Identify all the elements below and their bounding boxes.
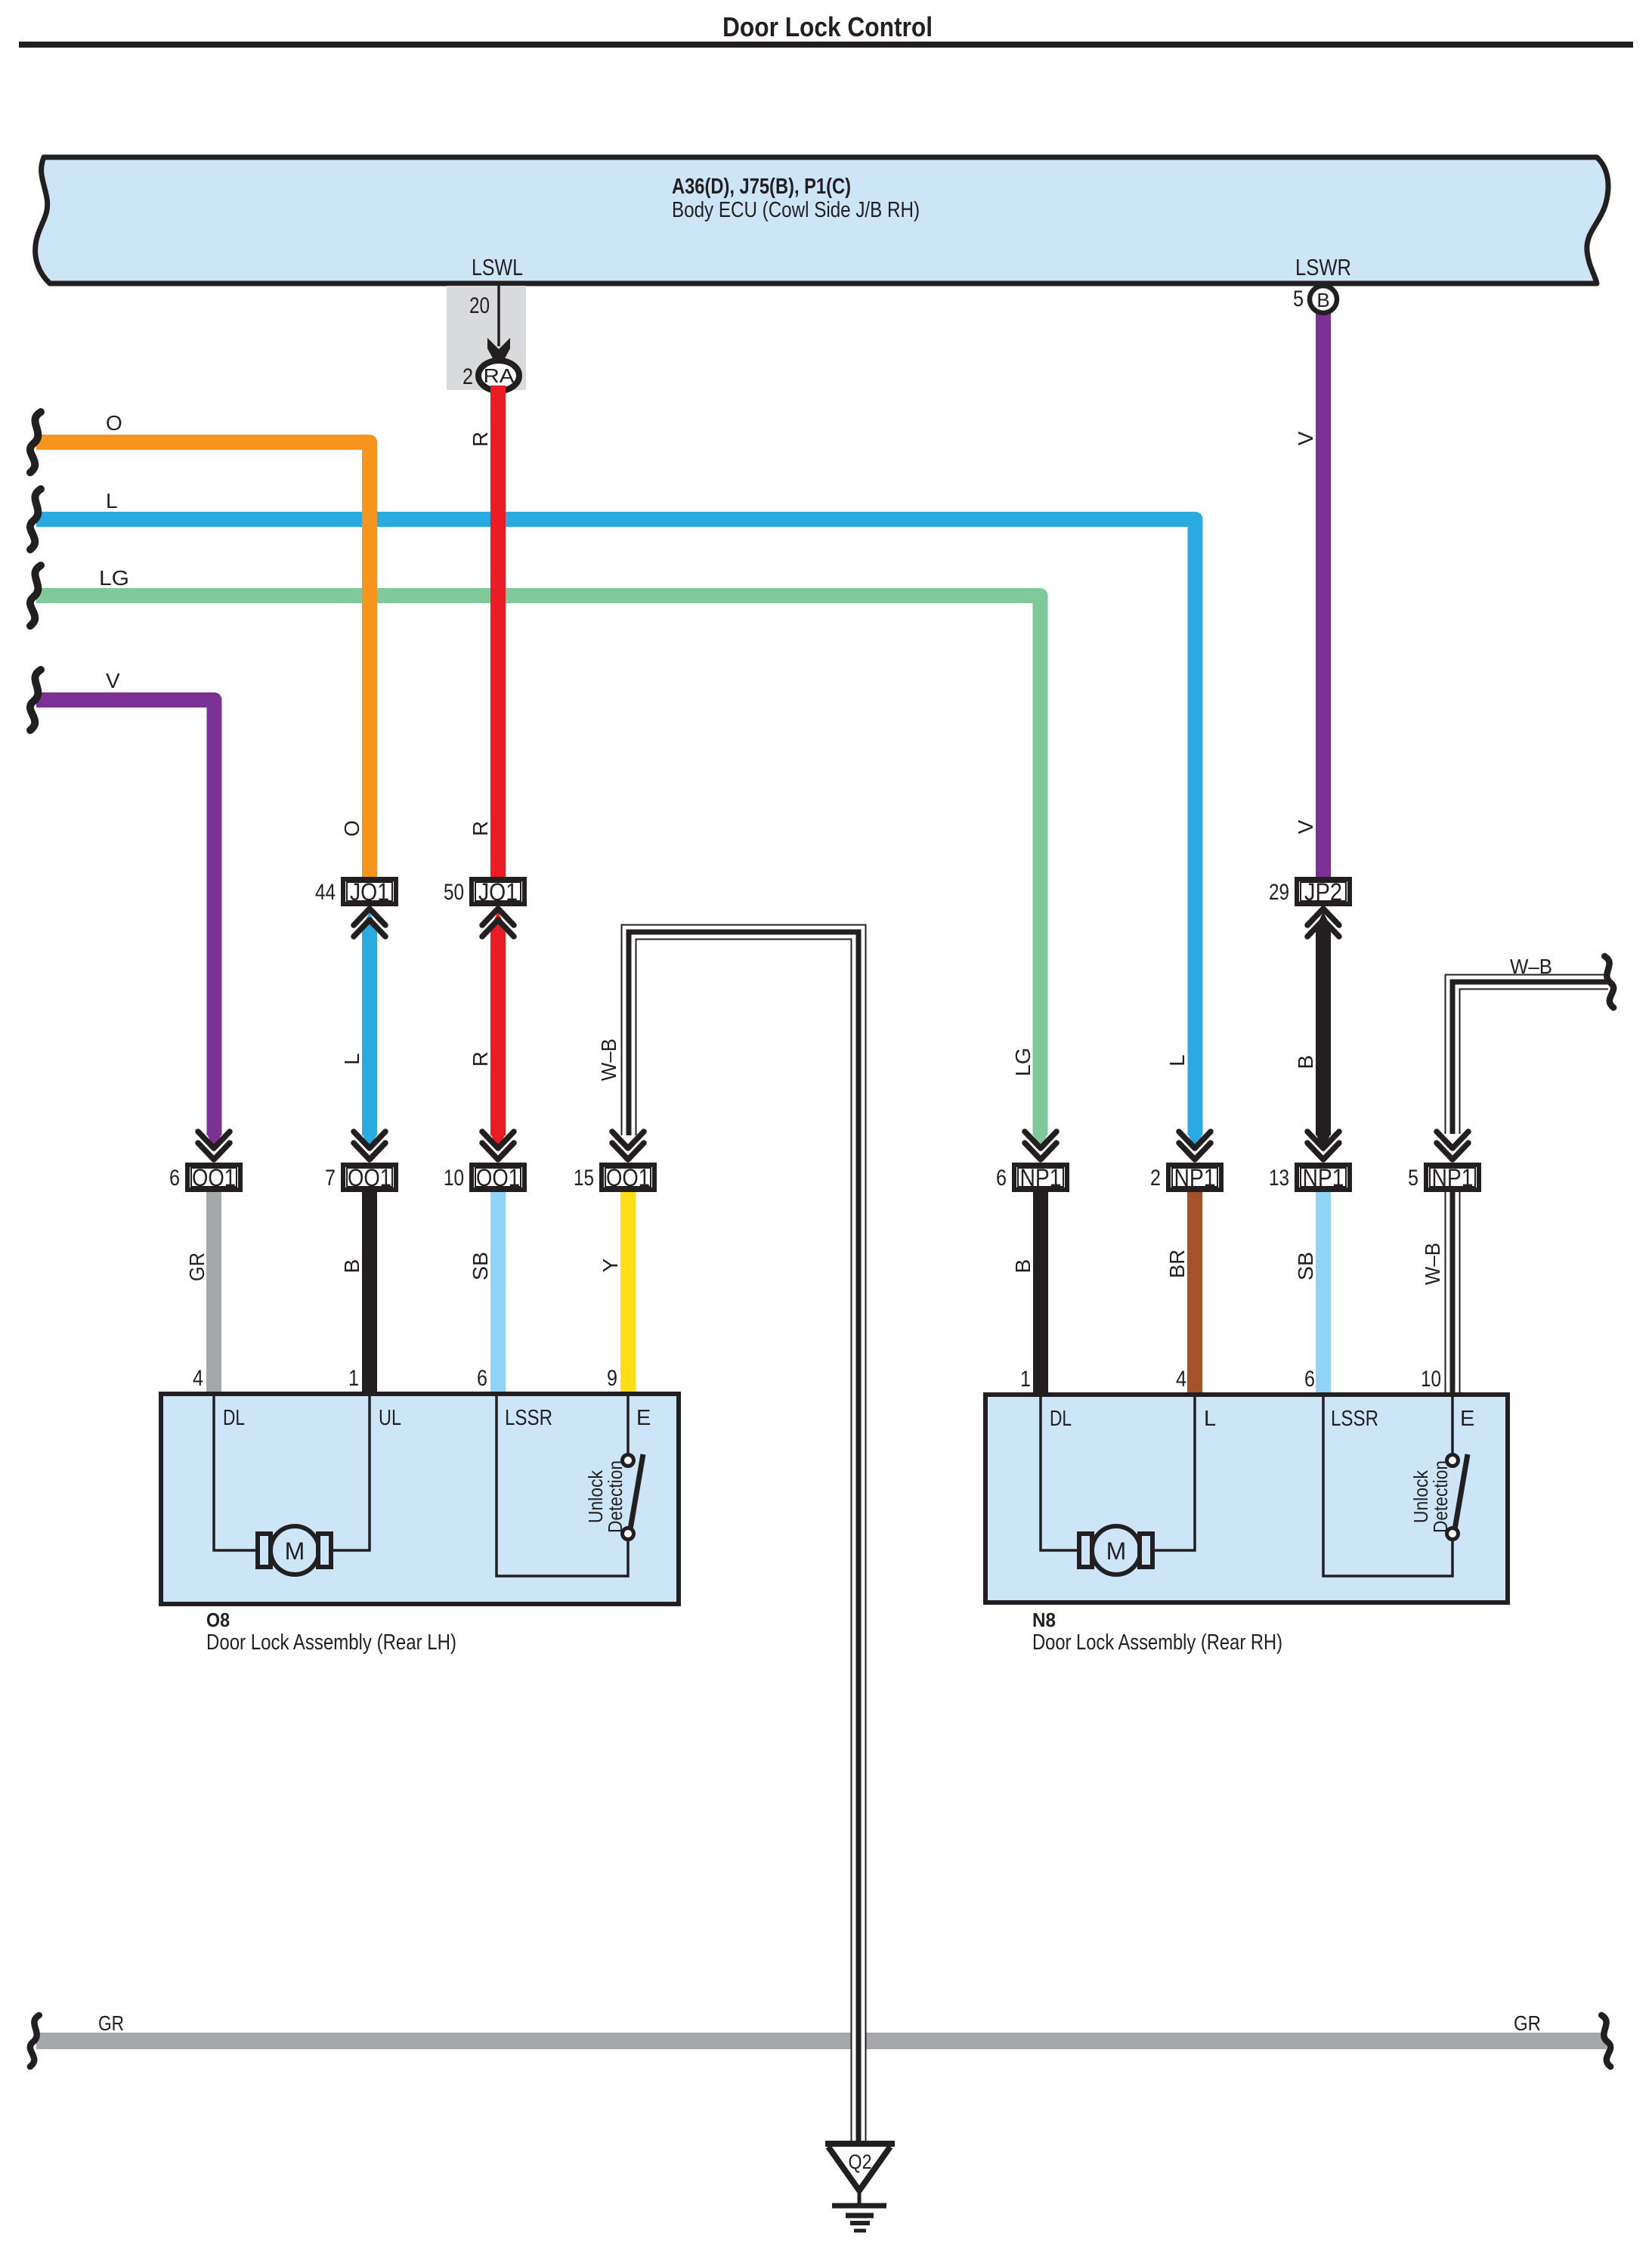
svg-text:6: 6 <box>1304 1367 1315 1392</box>
svg-text:LSWR: LSWR <box>1295 254 1351 280</box>
svg-text:LG: LG <box>1011 1048 1035 1076</box>
bottom ground bus GR <box>36 2011 1607 2049</box>
wire R red from RA <box>490 386 506 877</box>
connector 44 JQ1 <box>315 878 396 906</box>
svg-text:4: 4 <box>1176 1367 1186 1392</box>
svg-text:BR: BR <box>1165 1249 1189 1278</box>
svg-text:L: L <box>1204 1407 1216 1431</box>
wire LSWL pin lead <box>497 286 500 346</box>
svg-text:A36(D), J75(B), P1(C): A36(D), J75(B), P1(C) <box>672 175 851 199</box>
splice B on LSWR <box>1310 286 1337 313</box>
switch unlock detection <box>623 1455 634 1466</box>
switch unlock detection <box>1447 1455 1459 1466</box>
svg-text:O8: O8 <box>206 1609 230 1631</box>
break squiggle right GR <box>1601 2015 1610 2067</box>
arrow into 44 JQ1 <box>354 909 385 937</box>
break squiggle right W-B <box>1604 956 1613 1008</box>
svg-text:O: O <box>340 820 364 837</box>
svg-text:10: 10 <box>1421 1367 1441 1392</box>
arrow into 7 OQ1 <box>354 1132 385 1160</box>
svg-text:NP1: NP1 <box>1432 1164 1474 1191</box>
svg-text:50: 50 <box>444 880 464 905</box>
svg-text:LSWL: LSWL <box>472 254 523 280</box>
connector 29 JP2 <box>1269 878 1350 906</box>
wire SB to pin 6 <box>490 1192 506 1396</box>
connector 13 NP1 <box>1269 1164 1350 1191</box>
connector 6 OQ1 <box>169 1164 240 1191</box>
wire UL internal <box>331 1396 370 1550</box>
connector 2 NP1 <box>1150 1164 1221 1191</box>
wire V purple left <box>36 700 215 1135</box>
Body ECU banner A36(D) J75(B) P1(C) <box>36 157 1608 283</box>
arrow into 6 OQ1 <box>198 1132 230 1160</box>
arrow into 6 NP1 <box>1025 1132 1056 1160</box>
svg-text:V: V <box>106 669 120 692</box>
wire DL internal <box>214 1396 258 1550</box>
connector 50 JQ1 <box>444 878 524 906</box>
svg-text:OQ1: OQ1 <box>476 1164 520 1191</box>
svg-text:Detection: Detection <box>1429 1460 1452 1533</box>
svg-text:Y: Y <box>599 1258 622 1272</box>
svg-text:W–B: W–B <box>597 1039 620 1081</box>
svg-text:2: 2 <box>462 364 473 389</box>
svg-text:4: 4 <box>193 1366 203 1391</box>
svg-text:V: V <box>1294 431 1317 445</box>
arrow into 50 JQ1 <box>482 909 514 937</box>
connector 5 NP1 <box>1408 1164 1479 1191</box>
wire LSSR internal <box>1323 1397 1452 1576</box>
svg-text:JP2: JP2 <box>1304 878 1342 906</box>
block N8 Door Lock Assembly Rear RH <box>985 1367 1508 1602</box>
svg-text:LG: LG <box>99 566 129 590</box>
wire W-B ground run from 15 OQ1 to Q2 <box>629 932 858 2141</box>
ground Q2 <box>825 2144 895 2231</box>
wire R red mid segment <box>490 925 506 1135</box>
wire O orange <box>36 442 370 877</box>
svg-text:E: E <box>1460 1407 1474 1431</box>
svg-text:L: L <box>340 1053 364 1065</box>
wire colour labels <box>99 411 1552 1285</box>
svg-text:GR: GR <box>98 2011 124 2035</box>
svg-text:OQ1: OQ1 <box>192 1164 236 1191</box>
wire SB to pin 6 right <box>1316 1192 1331 1397</box>
wire Y yellow to pin 9 <box>620 1192 636 1396</box>
wire L blue mid segment <box>362 925 377 1135</box>
wire B black JP2 to 13 NP1 <box>1316 925 1331 1135</box>
svg-text:Door Lock Assembly (Rear LH): Door Lock Assembly (Rear LH) <box>206 1630 456 1655</box>
svg-text:M: M <box>285 1537 305 1565</box>
svg-text:N8: N8 <box>1032 1609 1056 1631</box>
arrow into 13 NP1 <box>1307 1132 1339 1160</box>
svg-text:B: B <box>1316 289 1329 311</box>
arrow into 2 NP1 <box>1179 1132 1211 1160</box>
wire B black to pin 1 <box>362 1192 377 1396</box>
connector 10 OQ1 <box>444 1164 524 1191</box>
svg-text:2: 2 <box>1150 1166 1161 1191</box>
svg-text:20: 20 <box>469 293 490 318</box>
wire BR brown to pin 4 right <box>1187 1192 1202 1397</box>
motor M <box>1092 1526 1140 1575</box>
svg-text:B: B <box>340 1259 364 1274</box>
svg-text:GR: GR <box>185 1253 209 1281</box>
wire L horizontal (blue) <box>36 519 1196 1135</box>
svg-text:L: L <box>1165 1054 1189 1067</box>
svg-text:R: R <box>469 432 492 447</box>
arrow into 29 JP2 <box>1307 909 1339 937</box>
wire V purple right from B circle <box>1316 302 1331 877</box>
wire E internal <box>626 1396 630 1455</box>
wire LG horizontal (green) <box>36 596 1041 1135</box>
svg-text:Q2: Q2 <box>849 2151 872 2173</box>
svg-text:6: 6 <box>477 1366 487 1391</box>
svg-text:B: B <box>1294 1055 1317 1070</box>
svg-text:5: 5 <box>1408 1166 1418 1191</box>
grey connector shade box under LSWL <box>447 286 526 391</box>
svg-text:NP1: NP1 <box>1174 1164 1216 1191</box>
break symbol wire LG <box>30 565 41 626</box>
arrow into 10 OQ1 <box>482 1132 514 1160</box>
wire B black to pin 1 right <box>1033 1192 1048 1397</box>
svg-text:L: L <box>106 489 118 512</box>
motor M <box>271 1526 319 1575</box>
wire L internal <box>1152 1397 1195 1550</box>
svg-text:B: B <box>1011 1259 1035 1274</box>
svg-text:6: 6 <box>169 1166 180 1191</box>
wire GR grey to pin 4 <box>206 1192 221 1396</box>
svg-text:R: R <box>469 821 492 836</box>
svg-text:OQ1: OQ1 <box>606 1164 650 1191</box>
svg-text:O: O <box>106 411 122 435</box>
svg-text:9: 9 <box>607 1366 617 1391</box>
break symbol wire L <box>30 489 41 550</box>
svg-text:DL: DL <box>1050 1407 1072 1431</box>
svg-text:JQ1: JQ1 <box>350 878 389 906</box>
svg-text:JQ1: JQ1 <box>478 878 518 906</box>
break symbol wire V <box>30 670 41 730</box>
arrow into 5 NP1 <box>1437 1132 1468 1160</box>
svg-text:44: 44 <box>315 880 336 905</box>
svg-text:LSSR: LSSR <box>505 1406 552 1430</box>
svg-text:1: 1 <box>1020 1367 1031 1392</box>
svg-text:OQ1: OQ1 <box>348 1164 391 1191</box>
connector 15 OQ1 <box>574 1164 654 1191</box>
connector 6 NP1 <box>996 1164 1067 1191</box>
svg-text:E: E <box>636 1406 651 1430</box>
wire W-B below 5 NP1 to pin 10 <box>1445 1192 1461 1397</box>
svg-text:DL: DL <box>223 1406 245 1430</box>
svg-text:GR: GR <box>1514 2011 1541 2035</box>
svg-text:R: R <box>469 1051 492 1067</box>
svg-text:7: 7 <box>325 1166 336 1191</box>
svg-text:1: 1 <box>348 1366 359 1391</box>
break symbol GR bus left <box>30 2015 39 2067</box>
svg-text:6: 6 <box>996 1166 1007 1191</box>
svg-text:UL: UL <box>379 1406 401 1430</box>
svg-text:Detection: Detection <box>604 1460 626 1533</box>
svg-text:NP1: NP1 <box>1303 1164 1344 1191</box>
svg-text:Body ECU (Cowl Side J/B RH): Body ECU (Cowl Side J/B RH) <box>672 198 920 222</box>
wire LSSR internal <box>497 1396 628 1576</box>
break symbol wire O <box>30 412 41 472</box>
wire W-B right from edge to 5 NP1 <box>1452 982 1608 1134</box>
svg-text:RA: RA <box>484 364 515 387</box>
wire E internal <box>1451 1397 1454 1455</box>
svg-text:10: 10 <box>444 1166 464 1191</box>
svg-text:29: 29 <box>1269 880 1289 905</box>
block O8 Door Lock Assembly Rear LH <box>161 1366 679 1604</box>
title <box>19 11 1633 48</box>
svg-text:5: 5 <box>1293 286 1304 311</box>
splice RA <box>478 361 519 391</box>
arrow into 15 OQ1 <box>612 1132 644 1160</box>
svg-text:V: V <box>1294 819 1317 834</box>
svg-text:13: 13 <box>1269 1166 1289 1191</box>
svg-text:15: 15 <box>574 1166 594 1191</box>
svg-text:W–B: W–B <box>1421 1243 1444 1285</box>
svg-text:Door Lock Assembly (Rear RH): Door Lock Assembly (Rear RH) <box>1032 1630 1282 1655</box>
svg-text:LSSR: LSSR <box>1331 1407 1378 1431</box>
svg-text:SB: SB <box>1294 1252 1317 1280</box>
svg-text:M: M <box>1106 1537 1127 1565</box>
wire DL internal <box>1041 1397 1079 1550</box>
svg-text:W–B: W–B <box>1510 955 1552 978</box>
svg-text:NP1: NP1 <box>1020 1164 1062 1191</box>
svg-text:SB: SB <box>469 1252 492 1280</box>
svg-text:Door Lock Control: Door Lock Control <box>722 11 933 42</box>
connector 7 OQ1 <box>325 1164 396 1191</box>
